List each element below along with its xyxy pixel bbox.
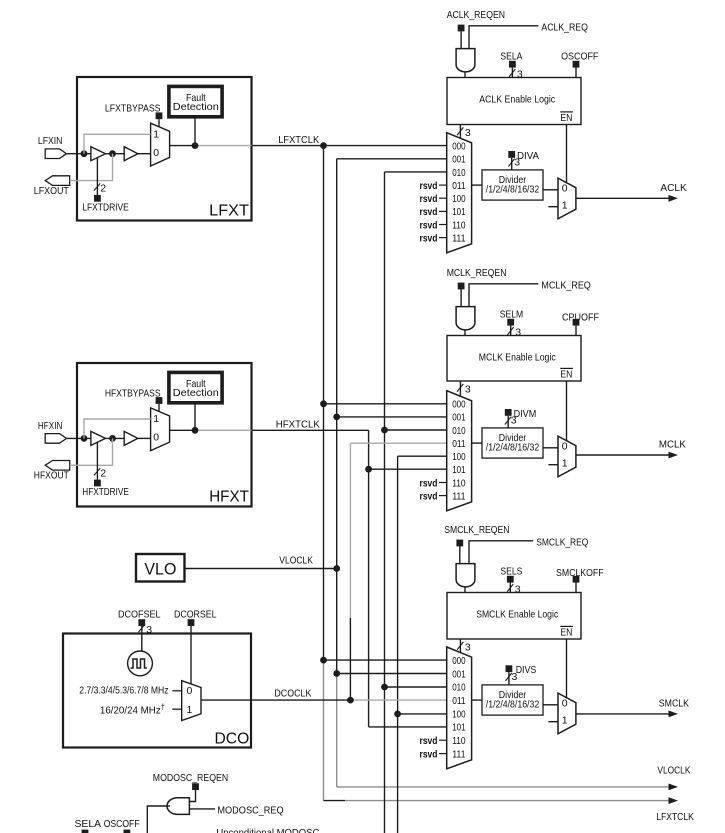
- svg-text:DCORSEL: DCORSEL: [174, 609, 217, 621]
- wire ACLK_REQEN to gate: [460, 31, 462, 48]
- wire HFXOUT to buffer1 output: [70, 438, 113, 465]
- node VLOCLK junction (MCLK 001): [333, 414, 340, 421]
- svg-text:rsvd: rsvd: [420, 206, 438, 218]
- svg-text:DCOCLK: DCOCLK: [274, 688, 311, 700]
- svg-text:rsvd: rsvd: [420, 180, 438, 192]
- LFXTDRIVE control square: [94, 195, 101, 202]
- svg-text:SELA: SELA: [500, 51, 522, 63]
- svg-text:/1/2/4/8/16/32: /1/2/4/8/16/32: [486, 183, 540, 195]
- wire LFMODCLK to ACLK mux input 010: [385, 171, 447, 173]
- node LFXT input junction: [81, 150, 88, 157]
- wire CPUOFF to enable logic: [575, 326, 577, 336]
- wire divider to output mux: [543, 189, 558, 191]
- wire mux to divider: [472, 184, 482, 186]
- svg-text:1: 1: [562, 458, 568, 470]
- wire HFXTCLK to vertical bus: [252, 429, 369, 431]
- wire select to source mux: [459, 381, 461, 396]
- svg-text:110: 110: [452, 219, 466, 231]
- SELS control square: [507, 576, 514, 583]
- bus width slash 3 (DIVS): [506, 673, 512, 681]
- node DCOCLK junction (SMCLK 011): [347, 697, 354, 704]
- svg-text:3: 3: [515, 327, 521, 339]
- svg-text:HFXIN: HFXIN: [38, 420, 63, 432]
- node HFXT output junction: [192, 427, 199, 434]
- wire MODCLK vertical bus: [397, 456, 399, 833]
- svg-text:MODOSC_REQEN: MODOSC_REQEN: [153, 772, 228, 784]
- svg-text:011: 011: [452, 180, 466, 192]
- wire MODOSC_REQ to gate: [190, 808, 216, 810]
- svg-text:DIVA: DIVA: [517, 150, 539, 162]
- wire gate output to enable logic: [464, 587, 466, 593]
- wire LFXTBYPASS to mux select: [158, 119, 160, 127]
- wire VLOCLK to SMCLK mux input 001: [337, 673, 447, 675]
- arrowhead ACLK: [669, 195, 679, 202]
- wire SMCLKOFF to enable logic: [575, 583, 577, 593]
- svg-text:110: 110: [452, 477, 466, 489]
- node VLOCLK junction: [333, 565, 340, 572]
- svg-text:011: 011: [452, 438, 466, 450]
- svg-text:110: 110: [452, 735, 466, 747]
- HFXTDRIVE control square: [94, 480, 101, 487]
- wire MODCLK to MCLK mux input 100: [398, 455, 447, 457]
- node LFXT output junction: [192, 142, 199, 149]
- svg-text:000: 000: [452, 655, 466, 667]
- bus width slash 3 (DIVM): [505, 417, 511, 425]
- buffer 2 (LFXT): [124, 147, 138, 161]
- wire SMCLK output: [576, 713, 669, 715]
- svg-text:ACLK_REQ: ACLK_REQ: [541, 21, 588, 33]
- svg-text:ACLK Enable Logic: ACLK Enable Logic: [479, 94, 555, 106]
- svg-text:MODOSC_REQ: MODOSC_REQ: [217, 805, 283, 817]
- wire LFXTDRIVE to buffer1: [96, 158, 98, 195]
- wire HFXTBYPASS to mux select: [158, 404, 160, 412]
- buffer 1 (LFXT oscillator amp): [91, 147, 106, 161]
- svg-text:LFXIN: LFXIN: [38, 135, 63, 147]
- wire SELM to enable logic: [510, 326, 512, 336]
- wire buffer1 to buffer2: [106, 153, 125, 155]
- DIVM control square: [505, 409, 512, 416]
- mux DCO range (inputs 0/1): [182, 681, 201, 721]
- wire EN to output mux: [566, 381, 568, 441]
- svg-text:010: 010: [452, 682, 466, 694]
- bus width slash 3 (select): [457, 127, 463, 135]
- feedback wire to mux input 1: [84, 134, 151, 153]
- svg-text:100: 100: [452, 451, 466, 463]
- wire HFXTCLK vertical bus: [368, 430, 370, 727]
- svg-text:Detection: Detection: [173, 387, 219, 399]
- wire ACLK output: [576, 197, 669, 199]
- wire SELS to enable logic: [509, 583, 511, 593]
- svg-text:ACLK: ACLK: [660, 182, 686, 194]
- wire MCLK output: [576, 454, 669, 456]
- wire SMCLK_REQEN to gate: [459, 546, 461, 563]
- svg-text:rsvd: rsvd: [420, 490, 438, 502]
- svg-text:rsvd: rsvd: [420, 748, 438, 760]
- wire gate output to enable logic: [464, 330, 466, 336]
- wire stub mux input 1: [548, 206, 558, 208]
- bus width slash 3 (SELM): [507, 327, 513, 335]
- svg-text:2: 2: [100, 183, 106, 195]
- source mux ACLK (8 inputs): [447, 133, 472, 253]
- svg-text:010: 010: [452, 167, 466, 179]
- bus width slash 2 (HFXTDRIVE): [94, 468, 100, 475]
- source mux SMCLK (8 inputs): [447, 647, 472, 769]
- arrowhead MCLK: [669, 452, 679, 459]
- svg-text:CPUOFF: CPUOFF: [562, 312, 599, 324]
- bus width slash 3 (SELS): [507, 584, 513, 592]
- svg-text:101: 101: [452, 722, 466, 734]
- wire LFXTCLK to MCLK mux input 000: [324, 403, 447, 405]
- svg-text:111: 111: [452, 748, 466, 760]
- svg-text:HFXOUT: HFXOUT: [34, 470, 69, 482]
- node VLOCLK junction (SMCLK 001): [333, 670, 340, 677]
- wire HFXT mux output: [170, 429, 195, 431]
- svg-text:VLOCLK: VLOCLK: [657, 764, 690, 776]
- svg-text:LFXTDRIVE: LFXTDRIVE: [82, 201, 129, 213]
- svg-text:SMCLK_REQ: SMCLK_REQ: [536, 536, 588, 548]
- wire DCOCLK gray vertical bus: [349, 443, 351, 618]
- MODOSC_REQEN control square: [192, 783, 199, 790]
- svg-text:SMCLK Enable Logic: SMCLK Enable Logic: [476, 609, 558, 621]
- wire SMCLK_REQ to gate: [469, 541, 533, 564]
- svg-text:0: 0: [153, 432, 159, 444]
- SMCLK_REQEN control square: [456, 540, 463, 547]
- HFXIN pad: [45, 434, 66, 444]
- divider box SMCLK: [482, 685, 543, 715]
- wire buffer2 to mux input 0: [138, 153, 151, 155]
- wire divider to output mux: [543, 704, 558, 706]
- arrowhead VLOCLK: [669, 784, 679, 791]
- wire VLOCLK to ACLK mux input 001: [337, 158, 447, 160]
- bus width slash 3 (select): [457, 384, 463, 392]
- svg-text:1: 1: [153, 129, 159, 141]
- node HFXTCLK junction (MCLK 101): [365, 466, 372, 473]
- svg-text:DIVM: DIVM: [514, 408, 537, 420]
- DIVA control square: [508, 151, 515, 158]
- svg-text:0: 0: [153, 147, 159, 159]
- svg-text:2: 2: [100, 467, 106, 479]
- bus width slash 3 (DCOFSEL): [139, 624, 145, 632]
- wire VLOCLK bottom run to output: [337, 786, 670, 788]
- svg-text:101: 101: [452, 206, 466, 218]
- svg-text:0: 0: [562, 440, 568, 452]
- node buffer1 output junction: [109, 150, 116, 157]
- svg-text:/1/2/4/8/16/32: /1/2/4/8/16/32: [486, 698, 540, 710]
- wire LFXTCLK bottom run to output: [324, 800, 346, 802]
- node LFMODCLK junction (MCLK 010): [381, 427, 388, 434]
- svg-text:HFXTCLK: HFXTCLK: [276, 419, 320, 431]
- SELA control square (bottom, cut): [82, 830, 89, 833]
- svg-text:000: 000: [452, 399, 466, 411]
- wire LFXT output inside box (gray): [195, 145, 252, 147]
- divider box MCLK: [482, 428, 543, 458]
- wire DCOCLK to MCLK mux input 011: [350, 442, 446, 444]
- svg-text:LFXOUT: LFXOUT: [34, 185, 69, 197]
- node HFXT input junction: [81, 435, 88, 442]
- svg-text:010: 010: [452, 425, 466, 437]
- wire HFXTDRIVE to buffer1: [96, 442, 98, 479]
- svg-text:MCLK: MCLK: [659, 439, 686, 451]
- svg-text:0: 0: [562, 697, 568, 709]
- wire select to source mux: [459, 125, 461, 139]
- wire HFXT output inside box (gray): [195, 429, 252, 431]
- arrowhead SMCLK: [669, 711, 679, 718]
- OSCOFF control square: [573, 61, 580, 68]
- mux HFXT bypass (inputs 1/0): [151, 408, 170, 451]
- wire gate output to enable logic: [464, 72, 466, 78]
- svg-text:/1/2/4/8/16/32: /1/2/4/8/16/32: [486, 441, 540, 453]
- ACLK_REQEN control square: [458, 25, 465, 32]
- svg-text:101: 101: [452, 464, 466, 476]
- wire DIVM to divider: [507, 416, 509, 428]
- node LFXTCLK junction: [320, 142, 327, 149]
- node buffer1 output junction: [109, 435, 116, 442]
- svg-text:001: 001: [452, 154, 466, 166]
- svg-text:111: 111: [452, 232, 466, 244]
- wire stub mux input 1: [548, 721, 558, 723]
- fault detection box (LFXT): [169, 86, 222, 116]
- output mux ACLK: [558, 178, 576, 219]
- wire VLOCLK from VLO: [185, 568, 337, 570]
- buffer 2 (HFXT): [124, 431, 138, 445]
- SELM control square: [507, 319, 514, 326]
- output mux MCLK: [558, 436, 576, 477]
- svg-text:LFXTBYPASS: LFXTBYPASS: [105, 103, 161, 115]
- wire HFXIN to buffer: [67, 437, 91, 439]
- LFXTBYPASS control square: [156, 112, 163, 119]
- bus width slash 2 (LFXTDRIVE): [94, 184, 100, 191]
- arrowhead LFXTCLK: [669, 797, 679, 804]
- svg-text:001: 001: [452, 412, 466, 424]
- svg-text:SMCLK_REQEN: SMCLK_REQEN: [444, 524, 509, 536]
- wire DIVA to divider: [511, 158, 513, 170]
- svg-text:rsvd: rsvd: [420, 219, 438, 231]
- wire LFMODCLK to SMCLK mux input 010: [385, 686, 447, 688]
- svg-text:HFXTBYPASS: HFXTBYPASS: [105, 387, 161, 399]
- svg-text:ACLK_REQEN: ACLK_REQEN: [447, 9, 505, 21]
- wire stub mux input 1: [548, 464, 558, 466]
- wire fault detection to LFXT output: [194, 117, 196, 146]
- node MODCLK junction (SMCLK 100): [394, 711, 401, 718]
- wire SELA to enable logic: [511, 68, 513, 78]
- svg-text:3: 3: [511, 415, 517, 427]
- svg-text:001: 001: [452, 668, 466, 680]
- MCLK_REQEN control square: [458, 283, 465, 290]
- output mux SMCLK: [558, 693, 576, 734]
- SMCLKOFF control square: [573, 576, 580, 583]
- svg-text:1: 1: [153, 413, 159, 425]
- svg-text:Detection: Detection: [173, 101, 219, 113]
- VLO block box: [136, 554, 185, 582]
- DIVS control square: [506, 665, 513, 672]
- and gate SMCLK request: [456, 564, 475, 587]
- buffer 1 (HFXT oscillator amp): [91, 431, 106, 445]
- wire LFMODCLK vertical bus: [384, 172, 386, 833]
- ACLK enable logic box: [447, 78, 581, 125]
- svg-text:3: 3: [465, 641, 471, 653]
- wire EN to output mux: [566, 639, 568, 698]
- svg-text:0: 0: [187, 685, 193, 697]
- wire HFXTCLK to SMCLK mux input 101: [369, 726, 447, 728]
- svg-text:3: 3: [146, 624, 152, 636]
- wire LFXTCLK vertical bus: [323, 146, 325, 661]
- node LFXTCLK junction (SMCLK 000): [320, 657, 327, 664]
- svg-text:HFXT: HFXT: [209, 488, 249, 505]
- wire ACLK_REQ to gate: [469, 26, 538, 49]
- wire HFXTCLK to MCLK mux input 101: [369, 468, 447, 470]
- wire LFXTCLK to ACLK mux input 000: [252, 145, 447, 147]
- node LFMODCLK junction (SMCLK 010): [381, 684, 388, 691]
- fault detection box (HFXT): [169, 372, 222, 402]
- and gate MCLK request: [456, 307, 475, 330]
- svg-text:0: 0: [562, 182, 568, 194]
- svg-text:EN: EN: [560, 627, 572, 639]
- svg-text:SMCLKOFF: SMCLKOFF: [556, 567, 604, 579]
- svg-text:rsvd: rsvd: [420, 193, 438, 205]
- MCLK enable logic box: [447, 336, 581, 382]
- svg-text:rsvd: rsvd: [420, 735, 438, 747]
- LFXIN pad: [45, 149, 66, 159]
- wire EN to output mux: [566, 125, 568, 183]
- divider box ACLK: [482, 170, 543, 200]
- svg-text:2.7/3.3/4/5.3/6.7/8 MHz: 2.7/3.3/4/5.3/6.7/8 MHz: [79, 684, 168, 696]
- bus width slash 3 (select): [457, 642, 463, 650]
- HFXOUT pad: [45, 461, 69, 471]
- svg-text:MCLK_REQ: MCLK_REQ: [541, 279, 590, 291]
- svg-text:16/20/24 MHz†: 16/20/24 MHz†: [100, 702, 165, 716]
- DCO block box: [63, 634, 251, 748]
- svg-text:1: 1: [187, 704, 193, 716]
- wire LFXIN to buffer: [67, 153, 91, 155]
- DCOFSEL control square: [138, 619, 145, 626]
- node LFXTCLK junction (MCLK 000): [320, 400, 327, 407]
- svg-text:3: 3: [465, 127, 471, 139]
- mux LFXT bypass (inputs 1/0): [151, 123, 170, 166]
- svg-text:VLOCLK: VLOCLK: [279, 554, 313, 566]
- svg-text:SELA: SELA: [75, 818, 102, 830]
- wire mux to divider: [472, 442, 482, 444]
- wire MODOSC gate output: [147, 806, 170, 833]
- OSCOFF control square (bottom, cut): [124, 830, 131, 833]
- svg-text:EN: EN: [560, 112, 572, 124]
- wire select to source mux: [459, 639, 461, 653]
- feedback wire to mux input 1: [84, 419, 151, 438]
- svg-text:1: 1: [562, 715, 568, 727]
- bus width slash 3 (SELA): [509, 69, 515, 77]
- svg-text:SELS: SELS: [500, 566, 522, 578]
- svg-text:VLO: VLO: [144, 560, 176, 579]
- svg-text:SMCLK: SMCLK: [659, 698, 689, 710]
- svg-text:3: 3: [512, 671, 518, 683]
- wire MCLK_REQ to gate: [469, 284, 538, 307]
- and gate ACLK request: [456, 49, 475, 72]
- HFXTBYPASS control square: [156, 397, 163, 404]
- svg-text:100: 100: [452, 708, 466, 720]
- wire mux to divider: [472, 699, 482, 701]
- svg-text:011: 011: [452, 695, 466, 707]
- DCO oscillator circle icon: [128, 651, 153, 676]
- svg-text:MCLK_REQEN: MCLK_REQEN: [447, 267, 507, 279]
- svg-text:100: 100: [452, 193, 466, 205]
- wire buffer2 to mux input 0: [138, 437, 151, 439]
- SMCLK enable logic box: [447, 593, 581, 640]
- svg-text:000: 000: [452, 141, 466, 153]
- wire MODCLK to SMCLK mux input 100: [398, 713, 447, 715]
- svg-text:MCLK Enable Logic: MCLK Enable Logic: [479, 352, 556, 364]
- svg-text:rsvd: rsvd: [420, 232, 438, 244]
- wire buffer1 to buffer2: [106, 437, 125, 439]
- svg-text:Unconditional MODOSC: Unconditional MODOSC: [216, 827, 319, 833]
- svg-text:EN: EN: [560, 369, 572, 381]
- svg-text:LFXTCLK: LFXTCLK: [278, 134, 319, 146]
- SELA control square: [509, 61, 516, 68]
- wire DCOCLK from DCO mux: [201, 699, 350, 701]
- svg-text:DIVS: DIVS: [516, 664, 537, 676]
- svg-text:3: 3: [514, 157, 520, 169]
- wire LFMODCLK to MCLK mux input 010: [385, 429, 447, 431]
- svg-text:SELM: SELM: [500, 309, 523, 321]
- DCORSEL control square: [188, 619, 195, 626]
- svg-text:OSCOFF: OSCOFF: [561, 51, 598, 63]
- wire VLOCLK to MCLK mux input 001: [337, 416, 447, 418]
- wire DIVS to divider: [508, 672, 510, 685]
- svg-text:DCOFSEL: DCOFSEL: [118, 609, 161, 621]
- svg-text:3: 3: [465, 383, 471, 395]
- svg-text:111: 111: [452, 490, 466, 502]
- wire OSCOFF to enable logic: [575, 68, 577, 78]
- wire LFXTCLK to SMCLK mux input 000: [324, 659, 447, 661]
- wire DCOCLK to SMCLK mux input 011: [350, 699, 446, 701]
- svg-text:HFXTDRIVE: HFXTDRIVE: [82, 486, 129, 498]
- wire DCOFSEL to DCO: [141, 626, 143, 651]
- svg-text:OSCOFF: OSCOFF: [104, 818, 140, 830]
- svg-text:3: 3: [517, 69, 523, 81]
- bus width slash 3 (DIVA): [508, 159, 514, 167]
- svg-text:3: 3: [515, 584, 521, 596]
- svg-text:1: 1: [562, 200, 568, 212]
- svg-text:LFXTCLK: LFXTCLK: [656, 811, 694, 823]
- svg-text:DCO: DCO: [215, 731, 250, 748]
- wire LFXOUT to buffer1 output: [70, 154, 113, 181]
- wire MODOSC_REQEN to gate: [190, 790, 196, 801]
- wire VLOCLK vertical bus: [336, 159, 338, 674]
- wire fault detection to HFXT output: [194, 403, 196, 431]
- HFXT block box: [77, 363, 252, 507]
- wire LFXT mux output: [170, 145, 195, 147]
- CPUOFF control square: [573, 319, 580, 326]
- wire MCLK_REQEN to gate: [460, 289, 462, 306]
- LFXOUT pad: [45, 176, 69, 186]
- LFXT block box: [77, 77, 252, 221]
- svg-text:rsvd: rsvd: [420, 477, 438, 489]
- wire divider to output mux: [543, 447, 558, 449]
- and gate MODOSC request: [167, 798, 189, 815]
- svg-text:LFXT: LFXT: [209, 202, 249, 219]
- wire DCORSEL to range mux select: [190, 626, 192, 684]
- source mux MCLK (8 inputs): [447, 391, 472, 511]
